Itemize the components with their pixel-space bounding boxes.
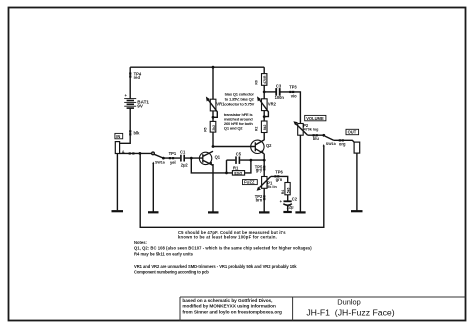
wire out jack sleeve to ground bbox=[356, 153, 358, 210]
wire TP1 / C1 input bbox=[163, 157, 180, 159]
svg-text:100n: 100n bbox=[275, 95, 285, 100]
svg-text:R5: R5 bbox=[203, 127, 207, 131]
svg-text:VR1 and VR2 are unmarked SMD-t: VR1 and VR2 are unmarked SMD-trimmers - … bbox=[134, 264, 297, 269]
svg-text:C2: C2 bbox=[292, 196, 298, 201]
svg-text:470k log: 470k log bbox=[304, 127, 319, 131]
switch SW1b bbox=[322, 134, 325, 137]
svg-text:Q1, Q2: BC 108 (also seen BC10: Q1, Q2: BC 108 (also seen BC107 - which … bbox=[134, 245, 312, 250]
svg-text:grn: grn bbox=[276, 177, 283, 182]
ground SW1a bbox=[148, 211, 159, 213]
test point TP5 connector bbox=[263, 166, 265, 171]
svg-text:blk: blk bbox=[134, 131, 141, 136]
svg-text:5k lin: 5k lin bbox=[267, 185, 277, 189]
svg-text:red: red bbox=[134, 75, 141, 80]
wire VR2 branch vertical bbox=[263, 67, 265, 99]
svg-text:R2: R2 bbox=[255, 127, 259, 131]
junction Q2 emitter node bbox=[263, 159, 266, 162]
svg-text:VR2: VR2 bbox=[268, 101, 277, 106]
svg-text:5k6: 5k6 bbox=[286, 188, 290, 194]
test point TP3 connector bbox=[289, 91, 294, 93]
svg-text:8k2: 8k2 bbox=[263, 124, 267, 130]
COMPONENTS bbox=[112, 66, 363, 213]
ground out jack bbox=[351, 210, 363, 212]
test point TP2 connector bbox=[263, 195, 265, 200]
resistor R5 bbox=[210, 121, 216, 132]
svg-text:yel: yel bbox=[170, 160, 176, 165]
svg-text:OUT: OUT bbox=[348, 130, 357, 135]
svg-text:org: org bbox=[339, 141, 346, 146]
wire fuzz wiper to R4 bbox=[271, 176, 288, 182]
wire node A to switch bbox=[120, 152, 153, 154]
junction VR2 wiper bbox=[263, 115, 266, 118]
capacitor C2 22u electrolytic bbox=[284, 200, 292, 202]
wire C2 to ground bbox=[287, 206, 289, 211]
NOTES bbox=[134, 92, 312, 275]
connector blk bbox=[129, 130, 131, 135]
svg-text:R4 may be 5k11 on early units: R4 may be 5k11 on early units bbox=[134, 251, 194, 256]
wire SW1b to out jack bbox=[334, 140, 355, 142]
wire C5 top path bbox=[227, 159, 236, 161]
battery BAT1 9V bbox=[124, 99, 136, 109]
svg-text:modified by MONKEYXX using inf: modified by MONKEYXX using information bbox=[182, 304, 276, 309]
ground Q1 emitter bbox=[208, 211, 219, 213]
svg-text:A: A bbox=[122, 149, 125, 154]
svg-text:470R: 470R bbox=[263, 75, 267, 84]
svg-text:brn: brn bbox=[256, 198, 263, 203]
svg-text:C3: C3 bbox=[276, 83, 282, 88]
trimmer VR2 bbox=[262, 99, 268, 111]
junction C5 left bbox=[225, 172, 228, 175]
svg-text:C5: C5 bbox=[236, 151, 242, 156]
svg-text:R6: R6 bbox=[255, 80, 259, 84]
wire in jack sleeve to ground bbox=[116, 154, 118, 211]
svg-text:known to be at least below 100: known to be at least below 100pF for cer… bbox=[178, 235, 277, 240]
jack IN bbox=[115, 142, 119, 154]
svg-text:R1: R1 bbox=[233, 166, 239, 171]
wire volume wiper to SW1b bbox=[308, 134, 324, 136]
resistor R1 82k5 bbox=[232, 171, 244, 176]
svg-text:R4: R4 bbox=[281, 190, 285, 194]
wire Q1 emitter to ground bbox=[212, 164, 214, 212]
LABELS bbox=[115, 72, 359, 210]
ground C2 bbox=[283, 211, 291, 213]
svg-text:gry: gry bbox=[256, 168, 263, 173]
svg-text:TP1: TP1 bbox=[169, 151, 177, 156]
svg-text:based on a schematic by Gottfr: based on a schematic by Gottfried Divos, bbox=[182, 298, 272, 303]
svg-text:9V: 9V bbox=[137, 104, 144, 109]
transistor Q1 bbox=[199, 152, 211, 164]
label box OUT bbox=[346, 129, 359, 134]
wire Q1 collector to Q2 base bbox=[213, 146, 255, 148]
junction Q1 collector node bbox=[212, 145, 215, 148]
test point TP1 connector bbox=[169, 157, 174, 159]
resistor R4 bbox=[285, 183, 290, 195]
TITLEBLOCK bbox=[180, 297, 466, 321]
potentiometer P2 VOLUME 470k log bbox=[298, 124, 304, 136]
test point TP6 connector bbox=[274, 175, 279, 177]
junction VR1 wiper bbox=[212, 116, 215, 119]
svg-text:+: + bbox=[125, 93, 128, 98]
test point TP4 connector bbox=[129, 72, 131, 77]
node A bypass junction bbox=[139, 152, 142, 155]
connector blu bbox=[313, 134, 318, 136]
svg-text:SW1b: SW1b bbox=[326, 142, 337, 146]
wire R1 feedback path bbox=[191, 158, 232, 173]
label box IN bbox=[115, 133, 123, 138]
svg-text:+: + bbox=[280, 199, 283, 204]
label box VOLUME bbox=[305, 115, 326, 120]
capacitor C1 2u2 bbox=[181, 155, 184, 162]
svg-text:IN: IN bbox=[116, 134, 120, 139]
titleblock box bbox=[180, 296, 466, 298]
ground in jack bbox=[112, 210, 124, 212]
svg-text:TP3: TP3 bbox=[289, 85, 297, 90]
capacitor C5 bbox=[236, 156, 239, 164]
trimmer VR1 bbox=[210, 99, 216, 111]
svg-text:blu: blu bbox=[313, 136, 320, 141]
svg-text:2k2: 2k2 bbox=[212, 125, 216, 131]
wire battery branch bbox=[129, 67, 131, 98]
junction VR1 top rail bbox=[212, 66, 215, 69]
node A connector bbox=[129, 152, 135, 154]
ground fuzz pot bbox=[259, 211, 270, 213]
svg-text:TP6: TP6 bbox=[275, 170, 283, 175]
wire top supply rail bbox=[130, 66, 264, 68]
svg-text:Q1: Q1 bbox=[215, 154, 221, 159]
wire bypass run bbox=[140, 146, 324, 228]
svg-text:from Sinner and loylo on frees: from Sinner and loylo on freestompboxes.… bbox=[182, 309, 282, 314]
svg-text:Q2: Q2 bbox=[266, 143, 272, 148]
svg-text:2µ2: 2µ2 bbox=[181, 162, 189, 167]
svg-text:vio: vio bbox=[291, 93, 297, 98]
junction C3 tap bbox=[263, 91, 266, 94]
svg-text:Component numbering according: Component numbering according to pcb bbox=[134, 270, 209, 275]
potentiometer P1 FUZZ 5k lin bbox=[262, 177, 267, 189]
svg-text:Q1 and Q2: Q1 and Q2 bbox=[224, 125, 243, 130]
label box FUZZ bbox=[243, 180, 258, 185]
svg-text:Dunlop: Dunlop bbox=[337, 297, 360, 306]
ground volume pot bbox=[295, 211, 305, 213]
svg-text:JH-F1 (JH-Fuzz Face): JH-F1 (JH-Fuzz Face) bbox=[306, 307, 394, 317]
resistor R6 bbox=[262, 74, 267, 86]
svg-text:collector to 5.75V: collector to 5.75V bbox=[224, 102, 254, 107]
resistor R2 bbox=[261, 121, 267, 133]
svg-text:VOLUME: VOLUME bbox=[306, 116, 324, 121]
svg-text:22µ: 22µ bbox=[287, 205, 295, 210]
svg-text:82k5: 82k5 bbox=[234, 171, 242, 175]
wire Q2 emitter down fuzz branch bbox=[263, 154, 265, 177]
switch SW1a bbox=[152, 152, 155, 155]
jack OUT bbox=[354, 142, 360, 153]
svg-text:FUZZ: FUZZ bbox=[244, 180, 255, 185]
junction Q1 base bbox=[190, 157, 193, 160]
connector org bbox=[339, 139, 344, 141]
svg-text:SW1a: SW1a bbox=[155, 160, 166, 164]
svg-text:C1: C1 bbox=[180, 150, 186, 155]
junction R1/C5 right bbox=[250, 159, 253, 162]
capacitor C3 100n bbox=[276, 88, 280, 96]
wire SW1a to ground bbox=[152, 163, 154, 211]
wire C3 output tap bbox=[264, 91, 275, 93]
transistor Q2 bbox=[251, 140, 264, 153]
wire volume pot bottom to ground bbox=[299, 135, 301, 211]
wire VR1 branch vertical bbox=[212, 67, 214, 99]
